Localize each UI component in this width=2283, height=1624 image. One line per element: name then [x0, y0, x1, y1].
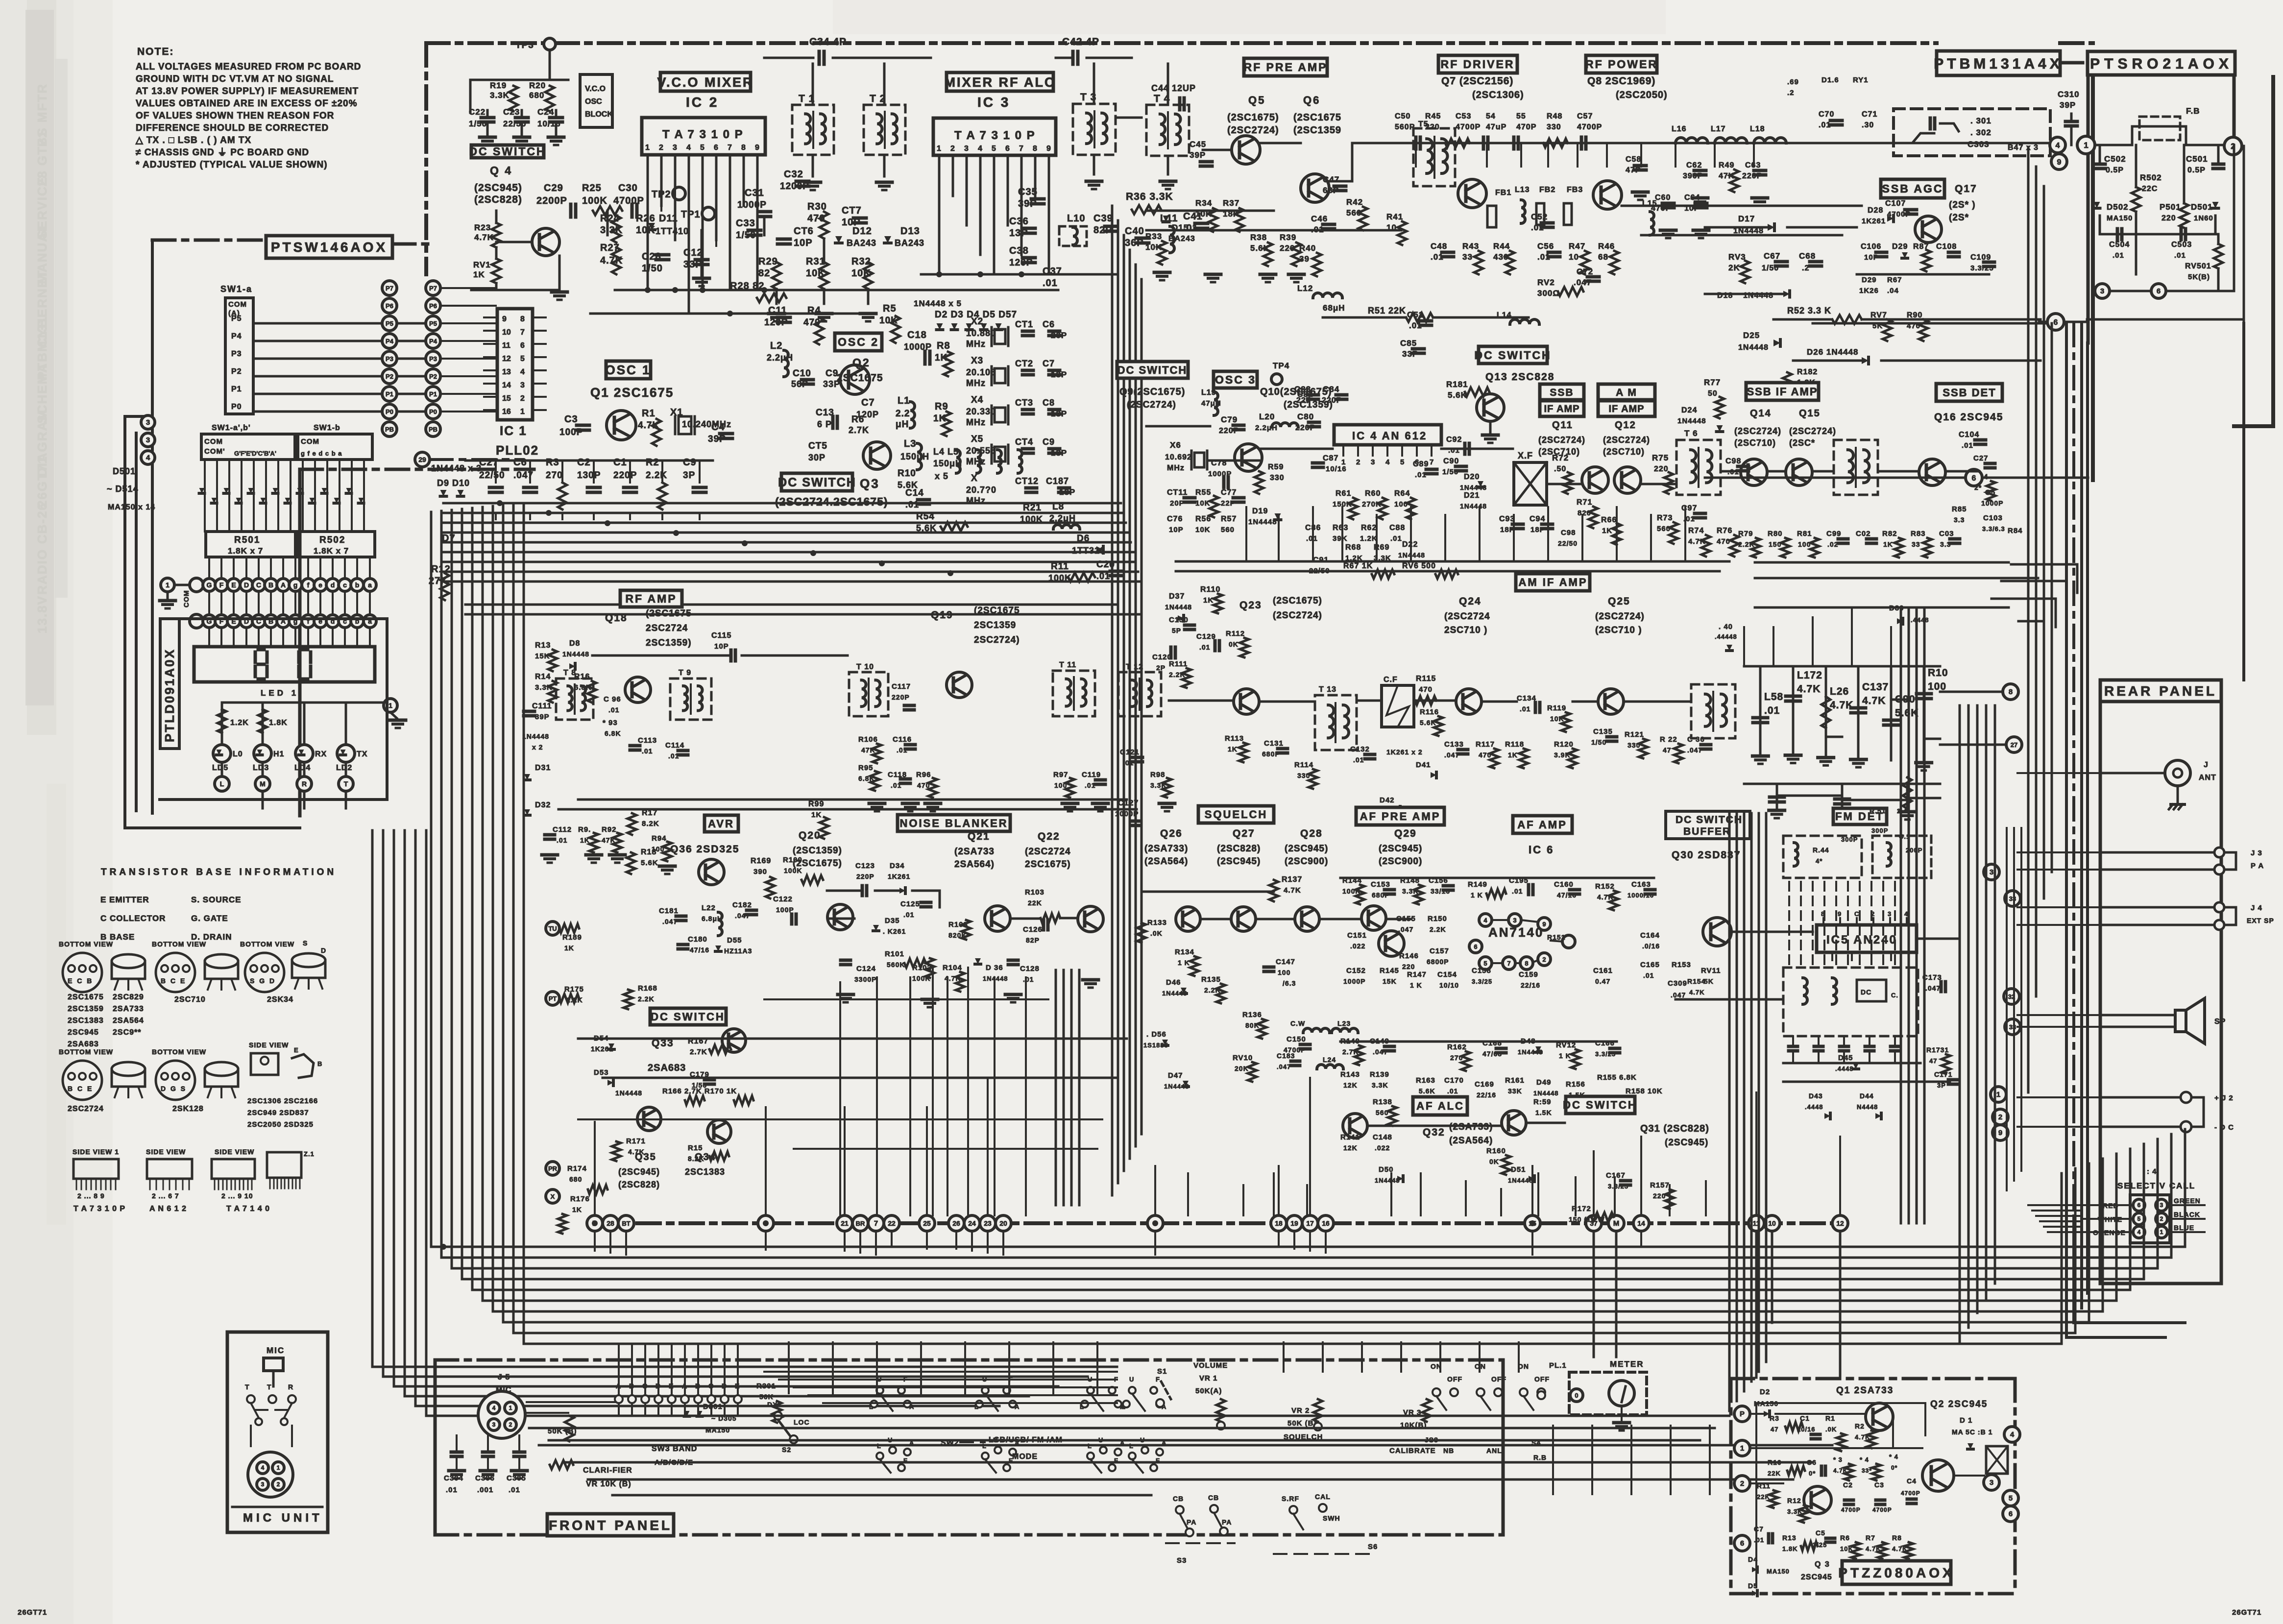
svg-text:CT3: CT3 [1015, 398, 1033, 408]
svg-text:RV501: RV501 [2185, 262, 2211, 270]
AF ALC rail [1340, 1041, 1617, 1043]
svg-text:B C E: B C E [68, 1085, 93, 1092]
Q4 area top rail [470, 79, 568, 81]
svg-text:(2SC1306): (2SC1306) [1472, 90, 1524, 100]
svg-text:D: D [244, 581, 249, 589]
svg-text:9: 9 [755, 144, 759, 152]
svg-text:R151: R151 [1547, 933, 1565, 941]
svg-text:C159: C159 [1519, 970, 1538, 979]
left vertical bundle [430, 512, 433, 833]
svg-text:1K261: 1K261 [888, 873, 910, 880]
svg-text:VR 10K (B): VR 10K (B) [586, 1480, 631, 1488]
svg-text:C111: C111 [532, 702, 552, 710]
svg-text:C310: C310 [2058, 90, 2080, 99]
svg-text:C8: C8 [1043, 398, 1055, 408]
svg-text:A/B/C/D/E: A/B/C/D/E [655, 1458, 693, 1467]
svg-text:330: 330 [1297, 772, 1310, 779]
osc1 top rail [465, 460, 713, 462]
AM IF rails [1357, 700, 1382, 702]
svg-text:2: 2 [1998, 1113, 2002, 1121]
package bottom view B C E [156, 953, 195, 992]
svg-text:SIDE VIEW: SIDE VIEW [215, 1148, 254, 1156]
PTZZ wires [1750, 1413, 1763, 1415]
lower horizontal pair [539, 1444, 1832, 1447]
svg-text:A: A [281, 581, 286, 589]
svg-text:D502: D502 [2107, 202, 2129, 212]
svg-text:L16: L16 [1672, 125, 1687, 133]
svg-text:19: 19 [1290, 1219, 1298, 1227]
svg-text:1N4448: 1N4448 [1533, 1090, 1559, 1097]
PTBM131A4X label [1937, 51, 2060, 75]
PTZZ board outline [1731, 1377, 2015, 1381]
svg-text:C40: C40 [1125, 226, 1144, 237]
svg-text:D20: D20 [1464, 473, 1480, 481]
svg-text:C50: C50 [1395, 112, 1410, 121]
svg-text:RV7: RV7 [1870, 311, 1887, 319]
svg-text:D25: D25 [1743, 331, 1760, 340]
speaker SP [2175, 1010, 2186, 1032]
svg-text:BOTTOM VIEW: BOTTOM VIEW [152, 940, 206, 948]
SQUELCH label [1198, 806, 1274, 823]
svg-text:10/16: 10/16 [1797, 1426, 1816, 1433]
svg-text:1.2K: 1.2K [1360, 534, 1378, 543]
svg-text:TRANSISTOR BASE INFORMATIO: TRANSISTOR BASE INFORMATION [101, 867, 337, 877]
svg-text:B47 x 3: B47 x 3 [2008, 144, 2039, 152]
svg-text:C129: C129 [1196, 632, 1216, 641]
svg-text:PA: PA [1222, 1518, 1232, 1526]
svg-text:EXT SP: EXT SP [2247, 917, 2274, 924]
svg-text:(2SC710): (2SC710) [1734, 438, 1776, 448]
svg-text:2.2μH: 2.2μH [1255, 424, 1278, 432]
svg-text:C152: C152 [1346, 967, 1366, 975]
AVR label [704, 815, 738, 832]
svg-text:d: d [331, 581, 335, 589]
svg-text:P4: P4 [386, 338, 394, 345]
svg-text:R63: R63 [1333, 524, 1348, 532]
svg-text:Q15: Q15 [1799, 408, 1821, 419]
svg-text:1.8K: 1.8K [269, 719, 288, 727]
svg-text:R.B: R.B [1533, 1454, 1547, 1461]
svg-text:R121: R121 [1625, 730, 1644, 739]
svg-text:2SA733: 2SA733 [113, 1005, 144, 1013]
svg-text:R12: R12 [431, 564, 451, 575]
DC SWITCH Q4 label [471, 145, 544, 158]
svg-text:.01: .01 [903, 911, 914, 919]
svg-text:P0: P0 [429, 408, 437, 415]
svg-text:.01: .01 [1643, 971, 1654, 979]
svg-text:B C E: B C E [161, 977, 186, 985]
AF area drops to circle row [1187, 1173, 1189, 1215]
svg-text:R64: R64 [1394, 489, 1410, 498]
zener box [1986, 1446, 2008, 1474]
svg-text:4: 4 [978, 145, 982, 153]
AF pre transistor [1361, 906, 1386, 930]
svg-text:NOISE BLANKER: NOISE BLANKER [899, 817, 1008, 829]
svg-text:.01: .01 [1390, 534, 1402, 543]
rails into AVR/NB [559, 808, 1137, 811]
svg-text:470: 470 [1479, 751, 1491, 759]
svg-text:D26 1N4448: D26 1N4448 [1807, 347, 1858, 357]
squelch transistors [1176, 907, 1200, 931]
svg-text:R45: R45 [1425, 112, 1441, 121]
svg-text:330: 330 [1627, 741, 1640, 749]
svg-text:P0: P0 [386, 408, 393, 415]
svg-text:18P: 18P [1059, 487, 1075, 497]
svg-text:2: 2 [520, 394, 525, 403]
svg-text:20P: 20P [1051, 331, 1067, 340]
svg-text:3: 3 [1888, 910, 1891, 918]
svg-text:C104: C104 [1959, 431, 1979, 439]
svg-text:MIXER RF ALC: MIXER RF ALC [945, 75, 1056, 90]
svg-text:(2S* ): (2S* ) [1949, 200, 1976, 210]
svg-text:10/10: 10/10 [1439, 981, 1459, 989]
svg-text:(2SC2724): (2SC2724) [1595, 611, 1645, 622]
svg-text:C72: C72 [1577, 267, 1593, 276]
svg-text:0.5P: 0.5P [2187, 166, 2206, 174]
svg-text:Q32: Q32 [1423, 1127, 1445, 1138]
svg-text:DC SWITCH: DC SWITCH [651, 1011, 725, 1023]
svg-text:P4: P4 [429, 338, 437, 345]
svg-text:C29: C29 [544, 183, 563, 194]
svg-text:BA243: BA243 [1168, 235, 1195, 243]
svg-text:P5: P5 [231, 315, 242, 323]
svg-text:L172: L172 [1797, 670, 1822, 681]
transistor Q13 [1477, 394, 1504, 421]
front panel inner feeds [764, 1371, 1117, 1373]
PTSR left border [2087, 75, 2090, 343]
PTLD091A0X label box [160, 619, 179, 749]
SSB AGC label [1881, 179, 1944, 198]
svg-text:a: a [368, 581, 372, 589]
svg-text:C32: C32 [784, 169, 803, 180]
svg-text:DC SWITCH: DC SWITCH [778, 476, 856, 489]
svg-text:Q22: Q22 [1038, 831, 1060, 842]
svg-text:C154: C154 [1437, 970, 1457, 979]
svg-text:MA150: MA150 [2107, 214, 2133, 222]
svg-text:5: 5 [700, 144, 704, 152]
svg-text:C99: C99 [1826, 530, 1842, 538]
svg-text:5.6K: 5.6K [641, 859, 658, 867]
svg-text:R97: R97 [1053, 771, 1069, 779]
mid verticals between squelch and front panel [788, 1342, 790, 1393]
svg-text:Q12: Q12 [1615, 420, 1636, 431]
svg-text:V.C.O MIXER: V.C.O MIXER [657, 75, 753, 90]
svg-text:D43: D43 [1809, 1092, 1823, 1100]
svg-text:P5: P5 [429, 320, 437, 327]
svg-text:SW1-a',b': SW1-a',b' [212, 424, 251, 432]
package bottom view E C B [63, 953, 102, 992]
svg-text:FB1: FB1 [1495, 189, 1511, 197]
R-row bottom rail [1755, 561, 2009, 564]
svg-text:C62: C62 [1686, 161, 1702, 170]
svg-text:9: 9 [2057, 158, 2062, 167]
svg-text:22/50: 22/50 [479, 470, 505, 481]
svg-text:(2SC2724: (2SC2724 [1025, 847, 1071, 857]
svg-text:C169: C169 [1475, 1080, 1494, 1089]
svg-text:AF PRE AMP: AF PRE AMP [1360, 810, 1441, 823]
svg-text:R4: R4 [807, 305, 821, 316]
svg-text:12: 12 [1836, 1219, 1844, 1227]
Q24 transistor [1456, 689, 1482, 714]
svg-text:C36: C36 [1009, 216, 1029, 227]
svg-text:C304: C304 [444, 1474, 463, 1482]
svg-text:L: L [982, 1442, 987, 1450]
svg-text:(2SC*: (2SC* [1789, 438, 1815, 448]
svg-text:Q28: Q28 [1300, 828, 1323, 839]
svg-text:.4448: .4448 [1835, 1065, 1854, 1072]
VCO MIXER label [660, 73, 751, 91]
svg-text:55: 55 [1516, 112, 1526, 121]
svg-text:.4448: .4448 [1805, 1103, 1823, 1111]
svg-text:ALL VOLTAGES MEASURED FROM PC: ALL VOLTAGES MEASURED FROM PC BOARD [136, 62, 361, 72]
svg-text:C98: C98 [1561, 529, 1576, 537]
svg-text:COM: COM [228, 300, 247, 309]
svg-text:1: 1 [520, 408, 525, 416]
svg-text:R18: R18 [641, 848, 656, 856]
svg-text:GREEN: GREEN [2174, 1197, 2201, 1205]
svg-text:D8: D8 [569, 639, 580, 648]
svg-text:7: 7 [520, 328, 525, 337]
transistor Q17 [1915, 216, 1942, 242]
svg-text:Q17: Q17 [1955, 183, 1977, 194]
svg-text:270: 270 [546, 470, 563, 481]
svg-text:2K: 2K [1728, 263, 1740, 272]
svg-text:C121: C121 [1120, 748, 1140, 756]
svg-text:25: 25 [923, 1219, 931, 1227]
svg-text:Q8 2SC1969): Q8 2SC1969) [1587, 75, 1655, 87]
svg-text:.01: .01 [1306, 534, 1318, 543]
svg-text:. 302: . 302 [1970, 128, 1992, 137]
svg-text:R61: R61 [1336, 489, 1351, 498]
svg-text:.4448: .4448 [1911, 616, 1929, 624]
svg-text:C11: C11 [768, 305, 787, 316]
svg-text:2SA564): 2SA564) [954, 859, 995, 870]
svg-text:T: T [344, 780, 348, 788]
svg-text:D21: D21 [1464, 491, 1480, 500]
svg-text:RF PRE AMP: RF PRE AMP [1244, 61, 1328, 73]
svg-text:CLARI-FIER: CLARI-FIER [583, 1466, 632, 1475]
svg-text:S: S [303, 939, 308, 947]
svg-text:C163: C163 [1631, 880, 1651, 889]
svg-text:6: 6 [2137, 1202, 2141, 1209]
svg-text:1: 1 [645, 144, 650, 152]
svg-text:6: 6 [1005, 145, 1010, 153]
svg-text:7: 7 [1430, 458, 1433, 466]
circles 4 1 9 2 [2050, 137, 2065, 153]
svg-text:S3: S3 [1177, 1556, 1187, 1565]
svg-text:Q18: Q18 [605, 612, 628, 624]
PTBM bottom connector trunk (dash-dot) [594, 1221, 1840, 1225]
svg-text:R40: R40 [1299, 243, 1316, 253]
svg-text:10P: 10P [794, 238, 813, 248]
svg-text:OSC 2: OSC 2 [838, 336, 879, 348]
FM det extra dashed box [1872, 836, 1931, 878]
svg-text:(2SC2050): (2SC2050) [1616, 90, 1668, 100]
svg-text:C117: C117 [892, 682, 911, 691]
svg-text:T 10: T 10 [856, 663, 874, 671]
svg-text:C79: C79 [1221, 415, 1238, 424]
svg-text:C4: C4 [1907, 1477, 1917, 1485]
svg-text:300P: 300P [1841, 836, 1858, 843]
svg-text:7: 7 [1019, 145, 1023, 153]
svg-text:V.C.O: V.C.O [585, 85, 606, 93]
svg-text:R137: R137 [1282, 875, 1302, 884]
svg-text:DX: DX [767, 1401, 777, 1408]
svg-text:CB: CB [1173, 1495, 1184, 1503]
svg-text:R155 6.8K: R155 6.8K [1597, 1073, 1637, 1082]
svg-text:D17: D17 [1738, 214, 1755, 223]
svg-text:R60: R60 [1365, 489, 1381, 498]
svg-text:4*: 4* [1816, 857, 1822, 865]
svg-text:C: C [256, 581, 261, 589]
svg-text:R46: R46 [1598, 242, 1615, 251]
svg-text:Q1 2SA733: Q1 2SA733 [1836, 1385, 1894, 1396]
svg-text:C84: C84 [1323, 385, 1339, 394]
svg-text:30P: 30P [808, 453, 826, 462]
svg-text:47/16: 47/16 [690, 946, 709, 954]
IC2 pin verticals down [660, 189, 662, 211]
svg-text:R8: R8 [937, 340, 950, 351]
svg-text:2SC2724: 2SC2724 [68, 1105, 104, 1113]
SSB DET label [1936, 384, 2002, 401]
scan margin band [0, 0, 73, 1624]
svg-text:Q20: Q20 [799, 830, 821, 841]
svg-text:R10: R10 [1928, 667, 1948, 679]
svg-text:COM: COM [301, 437, 319, 446]
J4 EXT SP jack [2214, 902, 2224, 912]
svg-text:DIFFERENCE SHOULD BE CORRECTED: DIFFERENCE SHOULD BE CORRECTED [136, 123, 329, 133]
detector outputs rails [1755, 577, 2038, 580]
svg-text:9: 9 [502, 315, 507, 323]
svg-text:D51: D51 [1511, 1165, 1526, 1174]
svg-text:1 K: 1 K [1559, 1052, 1571, 1060]
svg-text:18: 18 [1275, 1219, 1283, 1227]
svg-text:50K(A): 50K(A) [1195, 1387, 1222, 1395]
svg-text:C02: C02 [1856, 530, 1871, 538]
Q18 transistor [625, 677, 651, 703]
svg-text:CT7: CT7 [842, 205, 862, 216]
svg-text:NB: NB [1443, 1447, 1454, 1454]
svg-text:D41: D41 [1416, 761, 1431, 769]
svg-text:R154: R154 [1687, 977, 1705, 985]
svg-text:C52: C52 [1531, 212, 1548, 221]
svg-text:.01: .01 [1447, 1087, 1458, 1095]
svg-text:23: 23 [984, 1219, 992, 1227]
rail to PTBM circles [1940, 142, 2048, 145]
svg-text:D12: D12 [852, 226, 872, 237]
svg-text:1000P: 1000P [1981, 499, 2003, 507]
svg-text:6: 6 [2054, 318, 2058, 327]
svg-text:R3: R3 [546, 457, 559, 468]
svg-text:OSC: OSC [585, 97, 602, 106]
svg-text:Q31 (2SC828): Q31 (2SC828) [1640, 1123, 1709, 1134]
Q32 Q31 rails [1367, 1125, 1502, 1127]
svg-text:g: g [293, 581, 298, 589]
svg-text:R13: R13 [1782, 1534, 1797, 1542]
svg-text:2SC1383: 2SC1383 [685, 1167, 725, 1177]
transistor Q1 [607, 411, 636, 440]
svg-text:C128: C128 [1020, 965, 1040, 973]
RF DRIVER label [1438, 55, 1517, 73]
svg-text:470: 470 [1419, 685, 1433, 694]
LED diodes LD [221, 703, 223, 745]
LED display box [194, 647, 375, 682]
svg-text:T 9: T 9 [679, 669, 691, 677]
svg-text:3: 3 [1371, 458, 1375, 466]
svg-text:4700P: 4700P [1577, 123, 1602, 131]
RF AMP label [620, 590, 682, 607]
svg-text:CAL: CAL [1315, 1493, 1331, 1501]
svg-text:(2SC900): (2SC900) [1285, 856, 1328, 867]
svg-text:C24: C24 [537, 107, 554, 117]
svg-text:R39: R39 [1280, 233, 1296, 242]
svg-text:D29: D29 [1862, 276, 1877, 284]
svg-text:270: 270 [1450, 1054, 1463, 1062]
svg-text:C57: C57 [1577, 112, 1593, 121]
svg-text:26GT71: 26GT71 [18, 1608, 47, 1617]
svg-text:2SC2050 2SD325: 2SC2050 2SD325 [247, 1120, 314, 1129]
svg-text:3.3: 3.3 [1954, 516, 1965, 524]
svg-text:R6: R6 [1840, 1534, 1850, 1542]
svg-text:BOTTOM VIEW: BOTTOM VIEW [240, 940, 294, 948]
svg-text:R147: R147 [1407, 970, 1427, 979]
svg-text:R116: R116 [1420, 708, 1439, 716]
DC SWITCH Q13 label [1479, 346, 1547, 364]
svg-text:C10: C10 [793, 368, 811, 379]
svg-text:R67 1K: R67 1K [1343, 562, 1373, 570]
svg-text:5: 5 [2137, 1215, 2141, 1222]
svg-text:HZ11A3: HZ11A3 [724, 947, 752, 955]
svg-text:F: F [1156, 1457, 1160, 1464]
transistor Q3 [863, 442, 891, 469]
svg-text:C03: C03 [1939, 530, 1954, 538]
svg-text:2SC945: 2SC945 [68, 1028, 99, 1037]
svg-text:20K: 20K [1235, 1065, 1249, 1072]
svg-text:5K: 5K [1704, 977, 1714, 985]
svg-text:Q11: Q11 [1552, 420, 1573, 431]
svg-text:R12: R12 [1787, 1497, 1801, 1504]
svg-text:15K: 15K [1383, 977, 1397, 985]
svg-text:* ADJUSTED (TYPICAL VALUE SHOW: * ADJUSTED (TYPICAL VALUE SHOWN) [136, 160, 328, 170]
svg-text:T 11: T 11 [1059, 661, 1076, 669]
svg-text:E: E [294, 1046, 299, 1054]
svg-text:PTBM131A4X: PTBM131A4X [1934, 56, 2063, 72]
svg-text:D 36: D 36 [986, 964, 1003, 972]
svg-text:P0: P0 [231, 403, 242, 411]
PTSR021A0X label [2088, 51, 2235, 75]
rear feeds across harness [2017, 772, 2100, 774]
svg-text:C4: C4 [711, 422, 725, 433]
svg-text:BT: BT [622, 1220, 630, 1227]
svg-text:R55: R55 [1195, 488, 1211, 497]
svg-text:D501: D501 [113, 466, 136, 476]
margin ghost column [35, 83, 49, 633]
svg-text:e: e [318, 581, 322, 589]
svg-text:OFF: OFF [1447, 1375, 1462, 1383]
svg-text:1K: 1K [1203, 596, 1214, 605]
svg-text:Z.1: Z.1 [304, 1150, 315, 1158]
svg-text:LED 1: LED 1 [261, 688, 299, 698]
AF top rail [1340, 877, 1654, 879]
svg-text:R20: R20 [529, 81, 546, 90]
svg-text:P5: P5 [386, 320, 393, 327]
svg-text:1N4448: 1N4448 [522, 732, 549, 740]
svg-text:22/50: 22/50 [1558, 539, 1578, 547]
svg-text:S. SOURCE: S. SOURCE [191, 895, 242, 904]
svg-text:D28: D28 [1868, 206, 1883, 215]
svg-text:PB: PB [429, 426, 437, 433]
svg-text:D 1: D 1 [1960, 1416, 1972, 1425]
